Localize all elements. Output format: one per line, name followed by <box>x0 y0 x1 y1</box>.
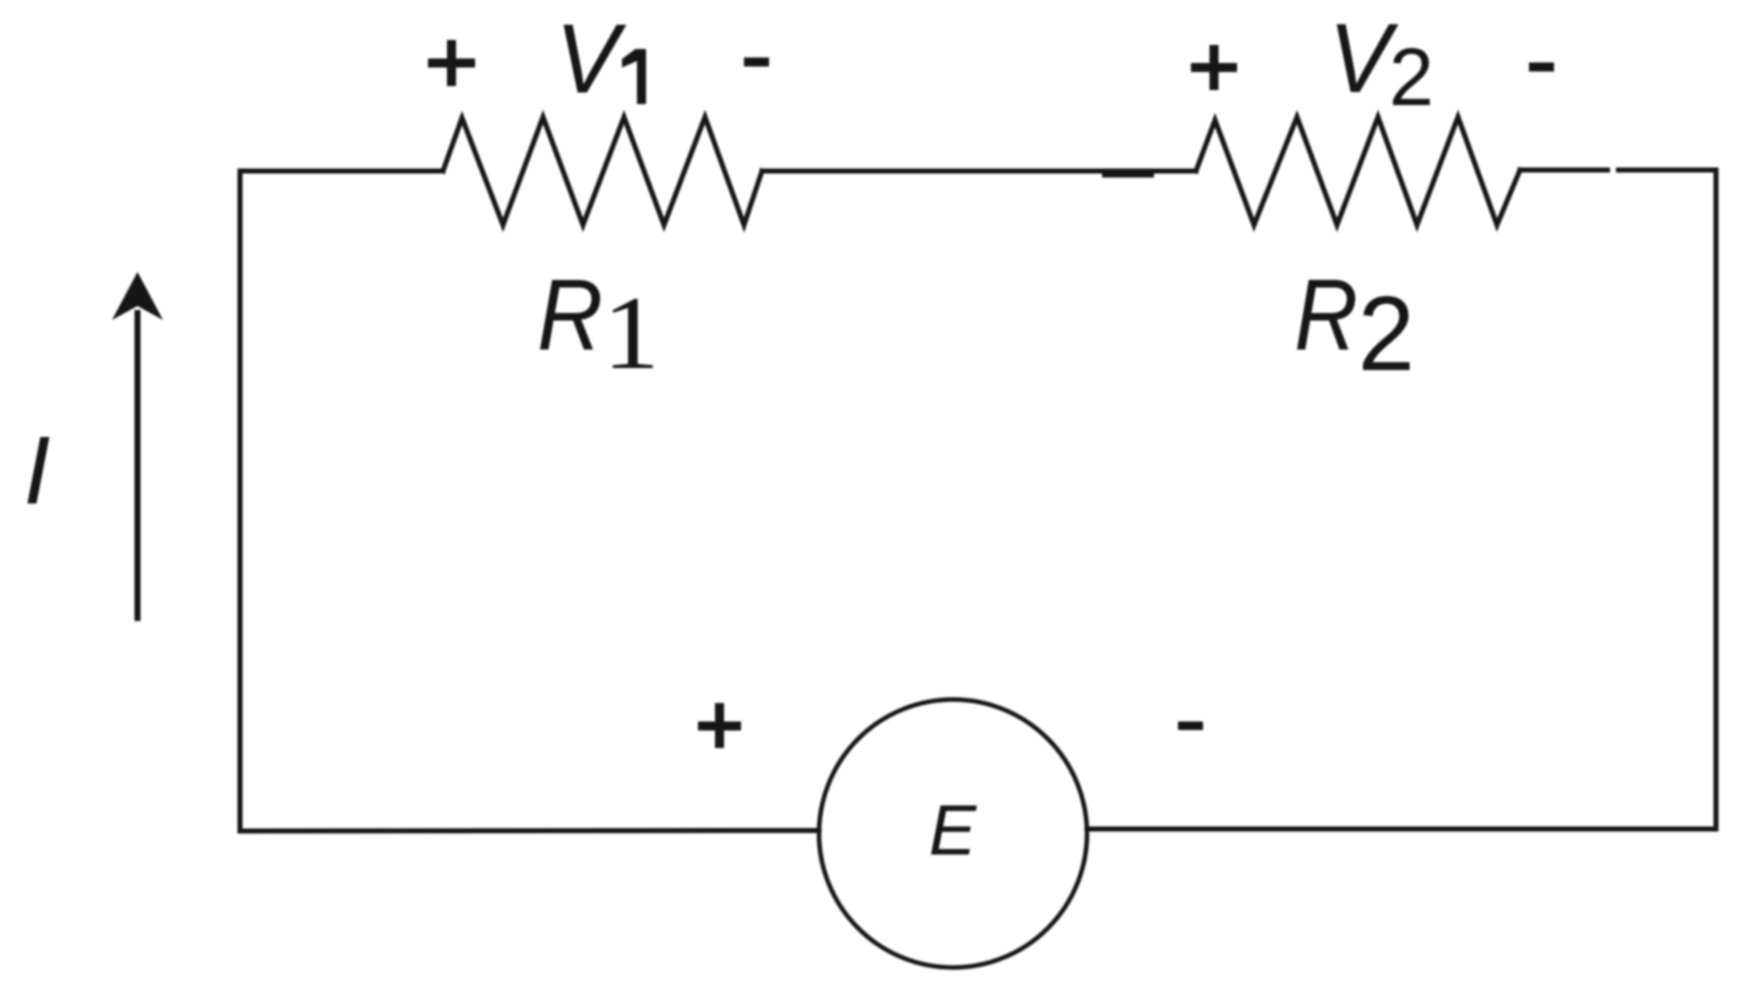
plus sign V2 <box>1191 45 1237 90</box>
minus sign V1 <box>744 58 769 67</box>
wire left <box>238 171 243 831</box>
plus sign V1 <box>428 40 475 86</box>
plus sign E <box>698 703 741 748</box>
wire bottom-right <box>1087 827 1716 832</box>
svg-text:2: 2 <box>1389 32 1434 122</box>
svg-text:1: 1 <box>603 275 660 391</box>
wire top-right b <box>1619 168 1717 173</box>
wire top-middle <box>762 169 1196 174</box>
wire top-right a <box>1520 168 1608 173</box>
svg-text:I: I <box>24 418 51 525</box>
resistor R2 <box>1196 117 1520 225</box>
wire right <box>1714 170 1719 829</box>
wire overlap artifact <box>1104 174 1152 178</box>
svg-text:E: E <box>929 792 978 871</box>
minus sign E <box>1178 722 1203 731</box>
wire bottom-left <box>240 828 819 834</box>
minus sign V2 <box>1529 63 1554 72</box>
current arrow I shaft <box>135 310 141 621</box>
svg-text:R: R <box>1294 259 1357 372</box>
voltage source E circle <box>819 700 1087 968</box>
wire top-left <box>240 169 443 174</box>
resistor R1 <box>443 117 762 225</box>
current arrow I head <box>112 272 163 320</box>
svg-text:R: R <box>537 259 603 372</box>
svg-text:V: V <box>555 3 627 114</box>
label V1 subscript 1 <box>622 49 646 104</box>
svg-text:2: 2 <box>1358 275 1415 393</box>
